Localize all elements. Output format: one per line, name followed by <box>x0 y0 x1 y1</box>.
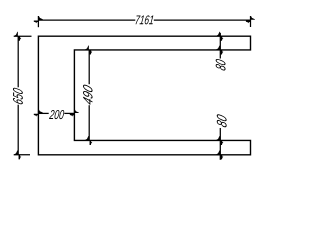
dimension 80 bottom line <box>219 128 221 160</box>
dimension 490 line <box>88 50 90 140</box>
dimension 200 text <box>49 110 64 119</box>
dimension 490 text <box>83 85 93 105</box>
dimension 650 extension line bottom <box>14 154 30 156</box>
dimension 200 tick left <box>34 109 43 116</box>
dimension 80 bottom tick upper <box>216 136 223 145</box>
dimension 7161 extension line left <box>37 16 39 27</box>
dimension 7161 extension line right <box>250 16 252 27</box>
dimension 80 top tick upper <box>216 32 223 41</box>
dimension 7161 line <box>38 19 250 21</box>
dimension 650 tick bottom <box>14 150 21 159</box>
dimension 80 top tick lower <box>216 46 223 55</box>
dimension 650 tick top <box>14 32 21 41</box>
dimension 490 tick bottom <box>85 136 92 145</box>
dimension 7161 tick left <box>34 16 43 23</box>
dimension 80 bottom text <box>217 114 227 127</box>
dimension 650 text <box>13 88 23 104</box>
dimension 200 line <box>38 112 74 114</box>
dimension 7161 tick right <box>246 16 255 23</box>
dimension 200 tick right <box>70 109 79 116</box>
dimension 650 line <box>17 36 19 155</box>
dimension 490 tick top <box>85 46 92 55</box>
dimension 80 top text <box>216 59 226 71</box>
dimension 7161 text <box>136 15 154 24</box>
dimension 80 top line <box>219 33 221 59</box>
dimension 650 extension line top <box>14 35 32 37</box>
dimension 80 bottom tick lower <box>216 150 223 159</box>
part outline (C-shaped plate, slot open to the right) <box>38 36 250 155</box>
